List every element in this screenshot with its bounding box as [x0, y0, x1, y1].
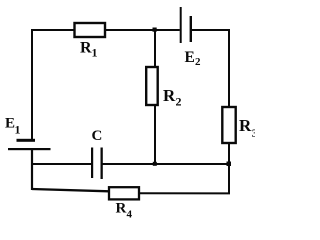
svg-text:R: R [116, 201, 127, 217]
wire: R1 to node A [105, 29, 155, 31]
svg-text:1: 1 [15, 123, 21, 137]
node B junction dot [153, 162, 157, 166]
wire: node C down to bottom-right corner [228, 164, 230, 194]
battery E1 short plate [17, 139, 36, 142]
wire: E1 to bottom-left corner [31, 150, 33, 190]
svg-text:1: 1 [92, 46, 98, 60]
wire: R2 down to node B [154, 105, 156, 164]
wire: capacitor branch, left segment [31, 163, 92, 165]
svg-text:R: R [163, 86, 176, 105]
wire: E2 to top-right corner [192, 29, 230, 31]
node A junction dot [153, 28, 157, 32]
resistor R3 [222, 107, 235, 143]
wire: mid vertical, node A down to R2 [154, 30, 156, 68]
svg-text:2: 2 [176, 95, 182, 109]
svg-text:C: C [92, 128, 103, 144]
svg-text:3: 3 [252, 126, 255, 140]
wire: bottom-left segment to R4 [32, 189, 109, 191]
battery E2 long plate [180, 7, 182, 43]
wire: bottom-right segment, R4 to corner [140, 192, 230, 194]
wire: node B to node C [155, 163, 229, 165]
capacitor C left plate [91, 148, 93, 179]
svg-text:E: E [5, 116, 15, 132]
battery E2 short plate [190, 16, 192, 42]
svg-text:4: 4 [127, 209, 133, 220]
svg-text:R: R [239, 116, 252, 135]
resistor R4 [109, 187, 139, 199]
svg-text:E: E [185, 49, 195, 66]
wire: node A to battery E2 [155, 29, 180, 31]
resistor R1 [75, 23, 106, 37]
capacitor C right plate [101, 148, 103, 180]
wire: capacitor to node B [103, 163, 156, 165]
wire: top-left corner to R1 [31, 29, 75, 31]
svg-text:2: 2 [195, 56, 201, 68]
wire: right side, corner down to R3 [228, 29, 230, 107]
node C junction dot [227, 162, 232, 167]
resistor R2 [146, 67, 158, 105]
battery E1 long plate [8, 148, 51, 150]
svg-text:R: R [80, 40, 92, 57]
wire: left side, corner down to E1 [31, 29, 33, 140]
wire: R3 to node C [228, 144, 230, 164]
